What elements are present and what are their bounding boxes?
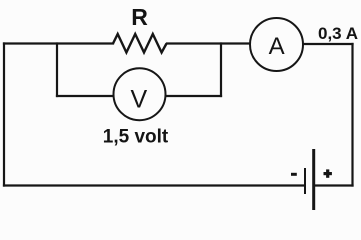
svg-text:0,3 A: 0,3 A: [318, 24, 358, 43]
wire: voltmeter branch left horizontal to voltmeter: [57, 95, 113, 97]
wire right edge: top-right corner down to bottom-right corner: [351, 44, 353, 186]
battery positive plate (long): [312, 149, 315, 210]
svg-text:R: R: [131, 4, 148, 30]
battery plus sign: [324, 169, 332, 177]
ammeter A body circle: [250, 18, 303, 71]
svg-text:V: V: [130, 86, 147, 114]
wire: voltmeter branch right horizontal from voltmeter: [166, 95, 221, 97]
battery minus sign: [291, 173, 297, 176]
svg-text:1,5 volt: 1,5 volt: [103, 127, 169, 148]
battery negative plate (short): [304, 168, 306, 194]
wire left edge: top-left corner down to bottom-left corner: [3, 44, 5, 186]
wire: voltmeter branch right riser up to top wire: [220, 44, 222, 97]
wire: ammeter to top-right corner: [303, 43, 353, 45]
wire bottom: bottom-left corner to battery negative plate: [4, 184, 304, 186]
svg-text:A: A: [269, 33, 285, 60]
wire top-left: outer corner to resistor: [4, 42, 113, 44]
wire: voltmeter branch left drop from top wire: [56, 44, 58, 97]
wire: resistor to ammeter (passes V-branch junction at x=221): [167, 42, 250, 44]
voltmeter V body circle: [114, 68, 166, 120]
resistor R: [113, 34, 167, 53]
wire: bottom-right corner to battery positive plate: [314, 184, 353, 186]
